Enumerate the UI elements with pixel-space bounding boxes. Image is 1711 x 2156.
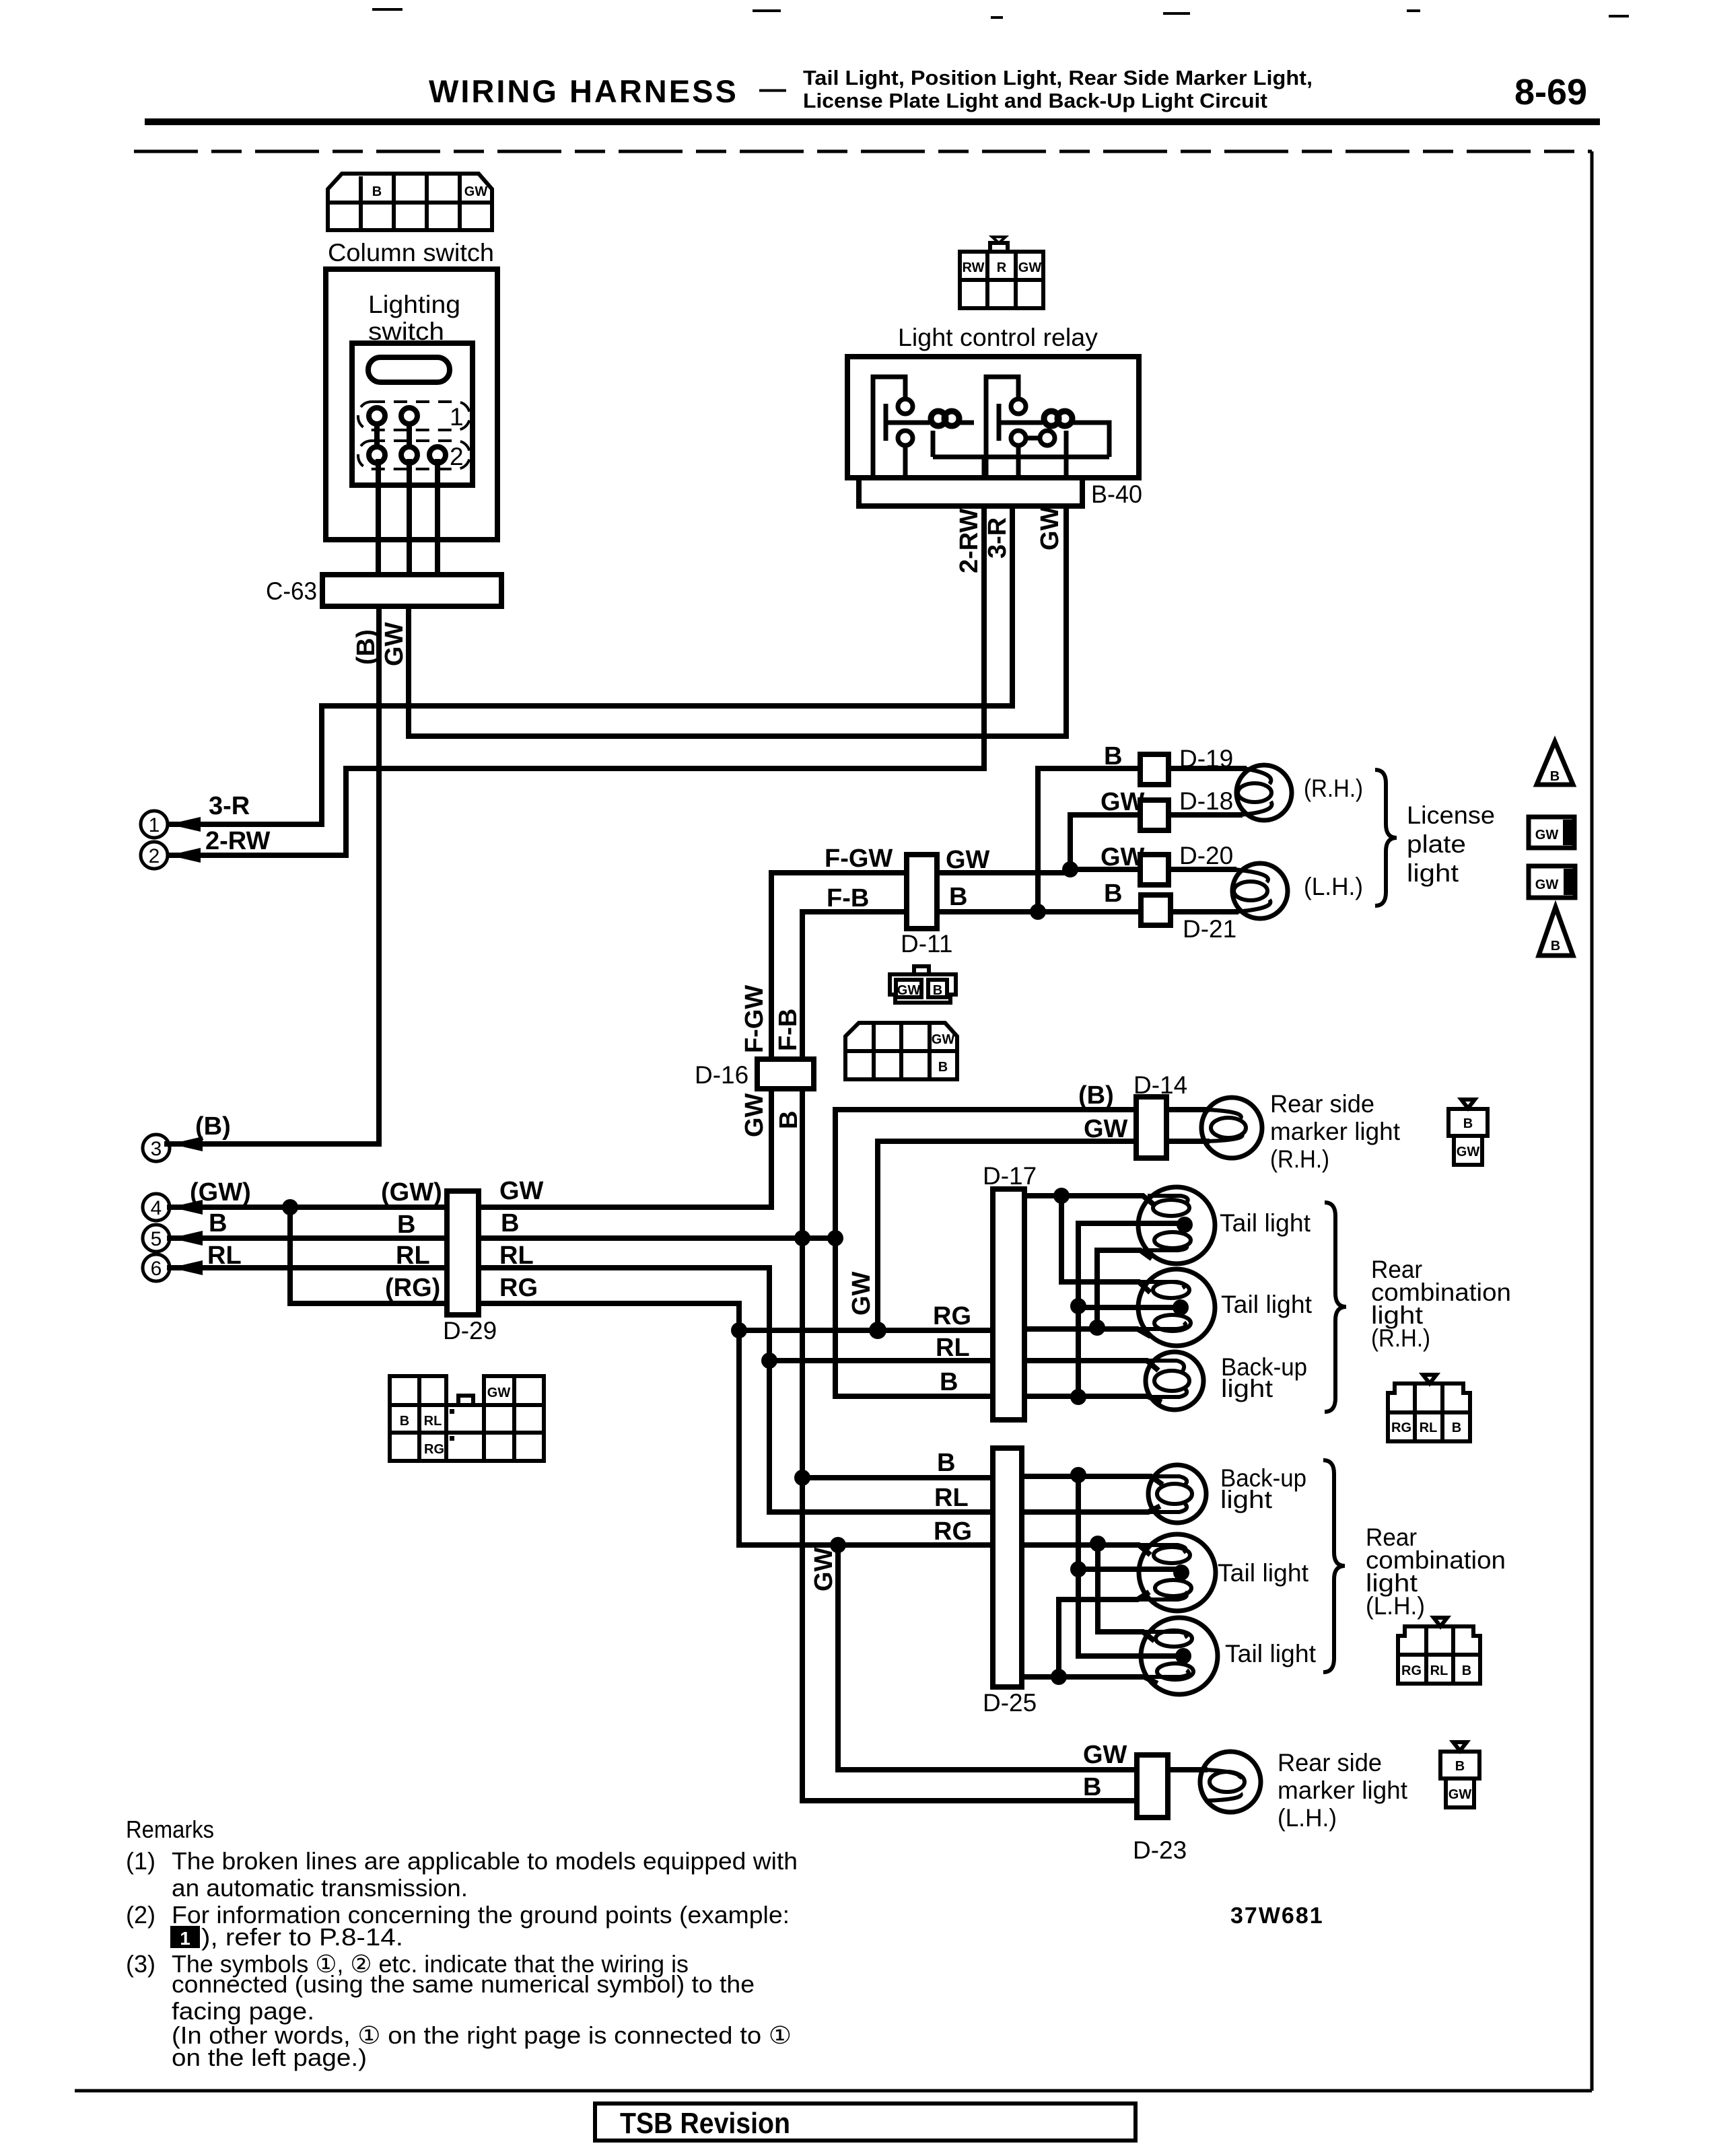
svg-text:GW: GW [1018,260,1042,275]
svg-text:(2): (2) [126,1901,155,1929]
svg-text:RG: RG [1391,1421,1411,1435]
svg-text:), refer to P.8-14.: ), refer to P.8-14. [201,1923,403,1951]
svg-text:(L.H.): (L.H.) [1278,1804,1337,1832]
svg-text:D-20: D-20 [1179,842,1233,869]
svg-text:B: B [933,983,942,998]
svg-text:(L.H.): (L.H.) [1304,873,1363,900]
svg-text:B: B [940,1368,958,1396]
svg-text:GW: GW [1036,506,1064,550]
svg-text:License Plate Light and Back-U: License Plate Light and Back-Up Light Ci… [803,89,1267,112]
svg-text:GW: GW [487,1386,511,1400]
svg-text:connected (using the same nume: connected (using the same numerical symb… [172,1970,755,1998]
svg-text:(R.H.): (R.H.) [1270,1145,1329,1173]
svg-text:B: B [937,1449,955,1477]
svg-text:1: 1 [149,814,160,836]
svg-text:B: B [1462,1663,1471,1678]
svg-text:light: light [1221,1375,1273,1402]
svg-text:3-R: 3-R [209,792,250,820]
svg-text:Rear side: Rear side [1278,1749,1382,1776]
svg-text:Tail light: Tail light [1218,1559,1309,1587]
svg-text:F-GW: F-GW [740,985,769,1053]
svg-text:The broken lines are applicabl: The broken lines are applicable to model… [172,1847,798,1875]
svg-text:switch: switch [368,318,444,345]
svg-text:RG: RG [933,1302,971,1330]
svg-text:GW: GW [1457,1145,1480,1159]
svg-text:3-R: 3-R [983,517,1012,559]
svg-text:RL: RL [499,1242,534,1270]
svg-text:B: B [1550,769,1560,784]
svg-text:Light control relay: Light control relay [898,324,1098,351]
svg-text:C-63: C-63 [266,577,317,605]
svg-text:6: 6 [151,1258,162,1280]
svg-text:RL: RL [1430,1663,1448,1678]
svg-text:(B): (B) [352,629,380,665]
svg-text:(GW): (GW) [381,1178,442,1207]
svg-text:3: 3 [151,1138,162,1160]
svg-text:Tail Light, Position Light, Re: Tail Light, Position Light, Rear Side Ma… [803,66,1313,89]
svg-text:License: License [1407,801,1495,829]
svg-text:D-23: D-23 [1133,1836,1187,1864]
svg-text:(3): (3) [126,1950,155,1978]
svg-text:B: B [372,184,382,199]
svg-text:D-25: D-25 [983,1689,1037,1717]
svg-text:GW: GW [1448,1787,1472,1802]
svg-text:GW: GW [740,1093,769,1137]
svg-text:Column switch: Column switch [328,239,494,266]
svg-text:TSB Revision: TSB Revision [620,2107,790,2140]
svg-text:B: B [1083,1773,1101,1801]
svg-text:light: light [1407,859,1459,887]
svg-text:2: 2 [450,443,464,470]
svg-text:(L.H.): (L.H.) [1366,1592,1425,1620]
svg-text:RL: RL [396,1242,430,1270]
svg-text:R: R [997,260,1007,275]
svg-text:GW: GW [946,846,990,874]
svg-text:light: light [1220,1486,1273,1513]
svg-text:(B): (B) [195,1112,231,1141]
svg-text:F-B: F-B [774,1009,802,1051]
svg-text:Tail light: Tail light [1225,1640,1317,1667]
svg-text:1: 1 [450,403,464,431]
svg-text:D-18: D-18 [1179,787,1233,815]
svg-text:B: B [938,1060,948,1075]
svg-text:—: — [759,74,786,104]
svg-text:RG: RG [424,1442,444,1457]
svg-text:on the left page.): on the left page.) [172,2044,367,2071]
svg-text:GW: GW [810,1547,838,1591]
svg-text:GW: GW [380,622,409,666]
svg-text:B: B [1551,939,1560,954]
svg-text:GW: GW [1535,828,1559,842]
svg-text:37W681: 37W681 [1230,1903,1324,1929]
svg-text:GW: GW [1101,843,1145,871]
svg-text:B: B [1104,879,1122,908]
svg-text:plate: plate [1407,830,1466,858]
svg-text:GW: GW [464,184,488,199]
svg-text:(RG): (RG) [385,1274,440,1302]
svg-text:B-40: B-40 [1091,480,1142,508]
svg-text:B: B [1455,1759,1465,1774]
svg-text:GW: GW [897,983,921,998]
svg-text:RL: RL [934,1484,969,1512]
svg-text:2: 2 [149,845,160,867]
svg-text:Tail light: Tail light [1221,1291,1313,1318]
svg-text:GW: GW [499,1177,544,1205]
svg-text:RG: RG [934,1517,972,1546]
svg-text:(B): (B) [1078,1081,1114,1110]
svg-text:D-14: D-14 [1133,1071,1187,1099]
svg-text:WIRING HARNESS: WIRING HARNESS [429,73,738,109]
svg-text:Remarks: Remarks [126,1816,214,1843]
svg-text:B: B [1463,1116,1473,1131]
svg-text:D-16: D-16 [695,1061,748,1089]
svg-text:B: B [949,883,967,911]
svg-text:5: 5 [151,1228,162,1250]
svg-text:(R.H.): (R.H.) [1371,1324,1430,1352]
svg-text:D-19: D-19 [1179,745,1233,772]
svg-text:B: B [397,1211,415,1239]
svg-text:facing page.: facing page. [172,1997,314,2025]
svg-text:GW: GW [1535,877,1559,892]
svg-text:GW: GW [932,1032,955,1047]
svg-text:an automatic transmission.: an automatic transmission. [172,1874,468,1902]
svg-text:RL: RL [424,1414,442,1429]
svg-text:F-GW: F-GW [825,845,893,873]
svg-text:RL: RL [207,1242,242,1270]
svg-text:2-RW: 2-RW [955,508,983,573]
svg-text:B: B [209,1209,227,1237]
svg-text:RG: RG [1401,1663,1422,1678]
svg-text:marker light: marker light [1278,1776,1408,1804]
svg-text:(R.H.): (R.H.) [1304,775,1363,802]
svg-text:B: B [400,1414,409,1429]
svg-text:Rear side: Rear side [1270,1090,1374,1118]
svg-text:4: 4 [151,1197,162,1219]
svg-text:RG: RG [499,1274,538,1302]
svg-text:1: 1 [180,1928,190,1949]
svg-text:Tail light: Tail light [1220,1209,1311,1237]
svg-text:F-B: F-B [827,884,869,912]
svg-text:RL: RL [936,1334,970,1362]
svg-text:2-RW: 2-RW [205,827,271,855]
svg-text:Lighting: Lighting [368,291,460,318]
svg-text:RL: RL [1420,1421,1438,1435]
svg-text:D-29: D-29 [443,1317,497,1344]
svg-text:B: B [1452,1421,1461,1435]
svg-text:D-11: D-11 [901,930,952,958]
svg-text:GW: GW [1101,788,1145,816]
svg-text:8-69: 8-69 [1514,72,1587,112]
svg-text:B: B [775,1111,803,1129]
svg-text:marker light: marker light [1270,1118,1401,1145]
svg-text:GW: GW [847,1271,876,1316]
svg-text:B: B [1104,742,1122,770]
svg-text:(1): (1) [126,1847,155,1875]
svg-text:D-21: D-21 [1183,915,1236,943]
svg-text:B: B [501,1209,519,1237]
svg-text:D-17: D-17 [983,1162,1037,1190]
svg-text:GW: GW [1084,1115,1128,1143]
svg-text:GW: GW [1083,1741,1127,1769]
svg-text:RW: RW [963,260,985,275]
